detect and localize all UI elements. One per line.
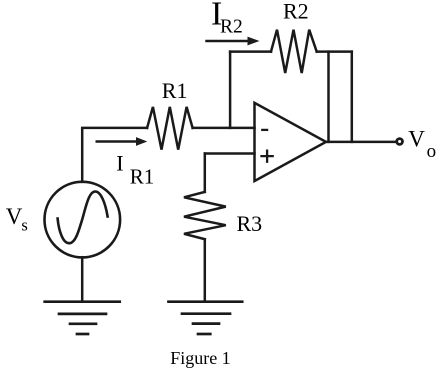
resistor R2 xyxy=(271,30,317,73)
wire: feedback vertical inner xyxy=(327,52,330,142)
node Vo output terminal xyxy=(397,139,403,145)
op-amp minus sign xyxy=(262,129,267,131)
wire: feedback right vertical outer xyxy=(351,52,354,142)
current arrow I_R2 xyxy=(207,37,260,46)
op-amp U1 xyxy=(255,103,327,181)
wire: source top vertical xyxy=(81,129,84,182)
op-amp plus sign xyxy=(262,151,273,162)
resistor R3 xyxy=(184,192,226,239)
svg-text:R3: R3 xyxy=(237,211,263,236)
svg-text:s: s xyxy=(21,215,27,234)
wire: feedback top horizontal to R2 xyxy=(230,50,271,53)
wire: main horizontal Vs to R1 xyxy=(82,127,147,130)
svg-text:R1: R1 xyxy=(162,78,188,103)
wire: R3 top vertical xyxy=(204,154,207,192)
wire: source bottom vertical xyxy=(81,257,84,301)
wire: non-inverting input horizontal xyxy=(205,152,255,155)
resistor R1 xyxy=(147,107,193,150)
ground (right, under R3) xyxy=(169,302,243,334)
ground (left, under Vs) xyxy=(45,302,120,334)
wire: R3 bottom vertical to ground xyxy=(204,239,207,301)
source Vs circle xyxy=(45,182,121,258)
source sine wave xyxy=(58,191,108,243)
svg-text:R1: R1 xyxy=(130,165,155,189)
svg-text:R2: R2 xyxy=(283,0,309,24)
svg-text:I: I xyxy=(116,151,123,176)
svg-text:R2: R2 xyxy=(220,16,243,37)
wire: R1 to op-amp inverting input xyxy=(193,127,255,130)
current arrow I_R1 xyxy=(97,137,148,146)
wire: output from op-amp tip xyxy=(326,141,397,144)
wire: R2 to right corner xyxy=(317,50,352,53)
svg-text:V: V xyxy=(6,204,23,229)
svg-text:o: o xyxy=(427,141,437,162)
svg-text:Figure 1: Figure 1 xyxy=(170,348,231,368)
wire: feedback left vertical xyxy=(229,52,232,128)
svg-text:V: V xyxy=(408,126,425,151)
